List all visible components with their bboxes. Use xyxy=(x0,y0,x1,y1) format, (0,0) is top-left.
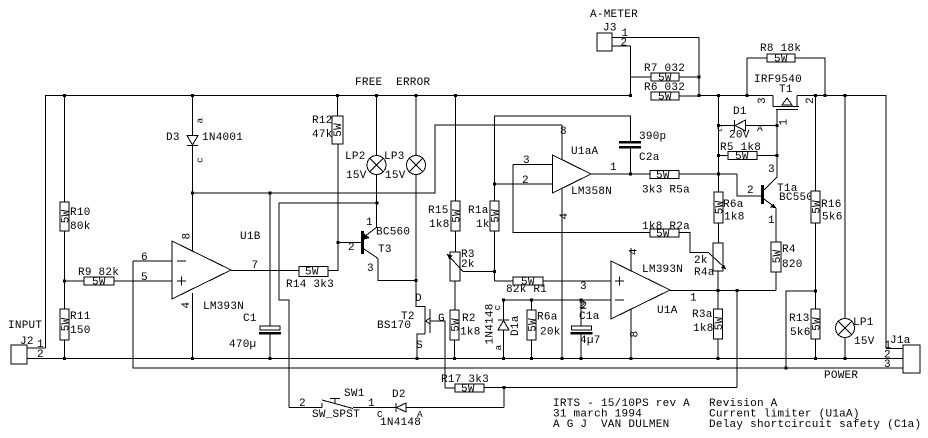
svg-text:5W: 5W xyxy=(305,267,319,279)
svg-text:5: 5 xyxy=(141,272,148,284)
node D1a top junction xyxy=(502,298,505,301)
svg-text:1: 1 xyxy=(768,215,775,227)
node D3 top rail junction xyxy=(191,94,194,97)
svg-text:5W: 5W xyxy=(451,209,463,223)
node R13 bottom rail junction xyxy=(814,357,817,360)
svg-text:J2: J2 xyxy=(20,336,34,348)
node R3 wiper R1a junction xyxy=(493,270,496,273)
svg-text:2: 2 xyxy=(299,398,306,410)
svg-text:G: G xyxy=(438,313,445,325)
svg-text:20V: 20V xyxy=(729,130,750,142)
resistor R12 47k xyxy=(312,96,345,145)
svg-text:20k: 20k xyxy=(540,327,561,339)
wire T1 drain rail xyxy=(797,96,886,349)
node J3 pin2 rail junction xyxy=(629,94,632,97)
svg-text:LM393N: LM393N xyxy=(203,301,244,313)
node R11 bottom rail junction xyxy=(63,357,66,360)
node LP1 bottom rail junction xyxy=(843,357,846,360)
node R10 top rail junction xyxy=(63,94,66,97)
svg-text:a: a xyxy=(493,345,504,351)
svg-text:R11: R11 xyxy=(70,311,91,323)
capacitor C2a 390p xyxy=(619,131,666,174)
svg-text:BC560: BC560 xyxy=(376,227,410,239)
svg-text:5W: 5W xyxy=(656,170,670,182)
svg-text:5k6: 5k6 xyxy=(790,327,811,339)
capacitor C1a 4u7 xyxy=(571,300,601,359)
svg-text:390p: 390p xyxy=(639,131,666,143)
svg-text:5W: 5W xyxy=(461,384,475,396)
svg-text:A G J VAN DULMEN: A G J VAN DULMEN xyxy=(553,419,669,431)
svg-text:R6a: R6a xyxy=(537,312,558,324)
node LP2 rail junction xyxy=(375,94,378,97)
svg-text:R6a: R6a xyxy=(723,199,744,211)
svg-text:5W: 5W xyxy=(333,123,345,137)
wire rail to T1 source xyxy=(699,95,773,97)
capacitor C1 470u xyxy=(229,193,281,359)
svg-text:3: 3 xyxy=(884,359,891,371)
node LP2 line B junction xyxy=(375,201,378,204)
svg-text:T1: T1 xyxy=(779,84,793,96)
svg-text:SW1: SW1 xyxy=(344,388,365,400)
transistor T1 IRF9540 xyxy=(754,74,817,171)
svg-text:R15: R15 xyxy=(428,205,449,217)
wire R5a output to T1a base xyxy=(737,174,761,196)
svg-text:5W: 5W xyxy=(714,316,726,330)
svg-text:D: D xyxy=(415,293,422,305)
svg-text:S: S xyxy=(416,340,423,352)
lamp LP2 15V xyxy=(345,96,386,228)
node D1 cathode junction xyxy=(717,124,720,127)
connector J1a POWER xyxy=(824,335,920,382)
connector J2 INPUT xyxy=(8,320,46,364)
svg-text:1: 1 xyxy=(779,119,791,126)
node U1B pin4 rail junction xyxy=(191,357,194,360)
svg-text:4µ7: 4µ7 xyxy=(580,335,601,347)
node R16 top rail junction xyxy=(814,94,817,97)
node T3 base R12/R14 junction xyxy=(336,241,339,244)
svg-text:2: 2 xyxy=(37,349,44,361)
wire D2 to R17 node xyxy=(503,388,505,408)
svg-text:Delay shortcircuit safety (C1a: Delay shortcircuit safety (C1a) xyxy=(709,419,921,431)
svg-text:R10: R10 xyxy=(70,207,91,219)
op-amp U1B LM393N xyxy=(133,231,299,359)
node C1a top junction xyxy=(579,298,582,301)
svg-text:3: 3 xyxy=(367,263,374,275)
svg-text:BC550: BC550 xyxy=(779,192,813,204)
svg-text:3: 3 xyxy=(757,97,769,104)
svg-text:5k6: 5k6 xyxy=(822,212,843,224)
node output branch junction xyxy=(735,289,738,292)
svg-text:LP2: LP2 xyxy=(345,151,366,163)
svg-text:2: 2 xyxy=(621,38,628,50)
svg-text:1N4148: 1N4148 xyxy=(380,417,421,429)
op-amp U1aA LM358N xyxy=(495,125,651,359)
node C2a output junction xyxy=(629,172,632,175)
svg-text:5W: 5W xyxy=(658,92,672,104)
node R2 rail junction xyxy=(453,357,456,360)
svg-text:5W: 5W xyxy=(92,277,106,289)
potentiometer R3 2k xyxy=(447,249,495,310)
wire top supply rail xyxy=(46,96,632,349)
svg-text:1: 1 xyxy=(368,398,375,410)
resistor R6a 1k8 xyxy=(714,174,745,243)
svg-text:U1A: U1A xyxy=(657,305,678,317)
wire U1aA pin3 to R2a line xyxy=(513,165,650,233)
node R15 rail junction xyxy=(454,94,457,97)
svg-text:80k: 80k xyxy=(70,221,91,233)
svg-text:POWER: POWER xyxy=(824,370,858,382)
svg-text:IRF9540: IRF9540 xyxy=(754,74,802,86)
wire U1A output to R17 line xyxy=(736,291,738,388)
svg-text:D1a: D1a xyxy=(510,315,522,336)
resistor R9 82k xyxy=(65,267,173,289)
wire R16 bottom to rail2 branch xyxy=(786,291,816,368)
svg-text:T3: T3 xyxy=(378,244,392,256)
svg-text:15V: 15V xyxy=(346,170,367,182)
svg-text:SW_SPST: SW_SPST xyxy=(312,409,360,421)
resistor R7 032 xyxy=(631,63,700,85)
svg-text:R12: R12 xyxy=(312,115,333,127)
label title block xyxy=(553,398,921,431)
svg-text:5W: 5W xyxy=(735,151,749,163)
svg-text:R1a: R1a xyxy=(468,205,489,217)
resistor R8 18k xyxy=(747,43,825,96)
svg-text:820: 820 xyxy=(782,259,803,271)
diode D1a 1N4148 xyxy=(485,300,523,359)
node R5 left junction xyxy=(717,154,720,157)
node U1aA pin4 rail junction xyxy=(560,357,563,360)
node R12 rail junction xyxy=(336,94,339,97)
svg-text:1N4001: 1N4001 xyxy=(202,132,243,144)
svg-text:1k8: 1k8 xyxy=(460,327,481,339)
resistor R15 1k8 xyxy=(428,96,463,253)
svg-text:A-METER: A-METER xyxy=(590,9,638,21)
resistor R1a 1k xyxy=(468,184,502,281)
svg-text:R14 3k3: R14 3k3 xyxy=(286,279,334,291)
svg-text:U1aA: U1aA xyxy=(571,146,599,158)
resistor R13 5k6 xyxy=(789,309,823,359)
svg-text:R4a: R4a xyxy=(694,267,715,279)
node R16 branch junction xyxy=(814,289,817,292)
node U1aA pin2 feedback junction xyxy=(493,182,496,185)
diode D3 1N4001 xyxy=(166,96,243,252)
node branch rail2 junction xyxy=(784,366,787,369)
node D2 R17 junction xyxy=(502,386,505,389)
svg-text:3k3 R5a: 3k3 R5a xyxy=(642,185,690,197)
svg-text:3: 3 xyxy=(580,281,587,293)
svg-text:15V: 15V xyxy=(854,336,875,348)
node T3 collector drain junction xyxy=(414,279,417,282)
node LP1 rail junction xyxy=(843,94,846,97)
node R6a bottom rail junction xyxy=(530,357,533,360)
svg-text:LM393N: LM393N xyxy=(642,264,683,276)
svg-text:2k: 2k xyxy=(694,255,708,267)
svg-text:6: 6 xyxy=(141,252,148,264)
resistor R1 82k xyxy=(495,277,612,297)
node R6a top junction xyxy=(530,298,533,301)
svg-text:a: a xyxy=(195,118,206,124)
node R4a bottom output junction xyxy=(716,289,719,292)
resistor R2 1k8 xyxy=(450,310,481,359)
svg-text:1k8: 1k8 xyxy=(429,219,450,231)
svg-text:1: 1 xyxy=(610,162,617,174)
wire C2a feedback line xyxy=(495,116,631,184)
svg-text:1: 1 xyxy=(366,217,373,229)
svg-text:1: 1 xyxy=(690,293,697,305)
svg-text:8: 8 xyxy=(560,126,567,138)
svg-text:C1: C1 xyxy=(243,313,257,325)
resistor R10 80k xyxy=(60,96,91,310)
wire U1A pin2 line xyxy=(504,299,612,301)
transistor T3 BC560 xyxy=(338,217,416,281)
node R7 right junction xyxy=(697,75,700,78)
resistor R16 5k6 xyxy=(811,96,843,310)
svg-text:D3: D3 xyxy=(166,132,180,144)
svg-text:R16: R16 xyxy=(821,199,842,211)
svg-text:2: 2 xyxy=(522,175,529,187)
svg-text:1k8 R2a: 1k8 R2a xyxy=(642,221,690,233)
svg-text:C2a: C2a xyxy=(639,152,660,164)
resistor R6a 20k xyxy=(527,300,561,359)
svg-text:150: 150 xyxy=(70,325,91,337)
node T2 source rail junction xyxy=(415,357,418,360)
node R5a R6a junction xyxy=(717,172,720,175)
wire D1 R5 branch vertical xyxy=(718,96,720,193)
svg-text:1k: 1k xyxy=(476,219,490,231)
potentiometer R4a 2k xyxy=(694,243,726,291)
op-amp U1A LM393N xyxy=(579,248,776,359)
wire bottom rail 1 (0V) xyxy=(27,358,903,360)
svg-text:3: 3 xyxy=(768,164,775,176)
resistor R4 820 xyxy=(771,242,803,291)
resistor R5a 3k3 xyxy=(642,170,737,197)
lamp LP1 15V xyxy=(836,96,875,359)
svg-text:c: c xyxy=(492,305,503,311)
transistor T1a BC550 xyxy=(747,156,813,243)
svg-text:2: 2 xyxy=(348,242,355,254)
node C1 bottom rail junction xyxy=(268,357,271,360)
node R8 right rail junction xyxy=(823,94,826,97)
node R3a bottom rail junction xyxy=(716,357,719,360)
node C1 top line A junction xyxy=(268,191,271,194)
node R8 left rail junction xyxy=(745,94,748,97)
wire node A line (D3 cathode to pin8 feed) xyxy=(193,125,563,193)
connector J3 A-METER xyxy=(590,9,699,96)
svg-text:R2: R2 xyxy=(462,313,476,325)
svg-text:LP1: LP1 xyxy=(853,317,874,329)
svg-text:c: c xyxy=(195,157,206,163)
diode D1 20V xyxy=(717,106,777,142)
svg-text:FREE ERROR: FREE ERROR xyxy=(355,77,431,89)
resistor R17 3k3 xyxy=(441,374,737,396)
diode D2 1N4148 xyxy=(377,389,504,429)
svg-text:1k8: 1k8 xyxy=(693,323,714,335)
resistor R6 032 xyxy=(644,82,699,104)
svg-text:4: 4 xyxy=(629,248,641,255)
svg-text:82k R1: 82k R1 xyxy=(506,284,547,296)
svg-text:A: A xyxy=(757,123,763,134)
resistor R3a 1k8 xyxy=(692,291,726,359)
svg-text:1k8: 1k8 xyxy=(724,212,745,224)
svg-text:BS170: BS170 xyxy=(377,320,411,332)
svg-text:R4: R4 xyxy=(782,244,796,256)
resistor R5 1k8 xyxy=(719,142,778,163)
svg-text:C1a: C1a xyxy=(579,311,600,323)
svg-text:INPUT: INPUT xyxy=(8,320,42,332)
svg-text:R13: R13 xyxy=(789,313,810,325)
wire bottom rail 2 xyxy=(133,261,903,368)
svg-text:LP3: LP3 xyxy=(384,151,405,163)
svg-text:LM358N: LM358N xyxy=(571,186,612,198)
node line A at D3 xyxy=(191,191,194,194)
svg-text:5W: 5W xyxy=(811,317,823,331)
svg-text:47k: 47k xyxy=(312,129,333,141)
svg-text:D1: D1 xyxy=(733,106,747,118)
svg-text:U1B: U1B xyxy=(240,231,261,243)
svg-text:470µ: 470µ xyxy=(229,339,256,351)
svg-text:5W: 5W xyxy=(774,54,788,66)
node R9/R10 junction xyxy=(63,279,66,282)
node D1 anode gate junction xyxy=(775,124,778,127)
svg-text:R3a: R3a xyxy=(692,309,713,321)
svg-text:8: 8 xyxy=(182,233,194,240)
resistor R11 150 xyxy=(60,309,91,359)
resistor R2a 1k8 xyxy=(642,221,709,253)
svg-text:D2: D2 xyxy=(392,389,406,401)
svg-text:4: 4 xyxy=(559,213,571,220)
node R6 right rail junction xyxy=(697,94,700,97)
transistor T2 BS170 xyxy=(377,293,445,388)
svg-text:15V: 15V xyxy=(385,170,406,182)
node R5 right junction xyxy=(775,154,778,157)
node D1a bottom rail junction xyxy=(502,357,505,360)
node C1a bottom rail junction xyxy=(579,357,582,360)
wire line B (SW1 branch) xyxy=(279,203,377,408)
node U1A pin8 rail junction xyxy=(629,357,632,360)
node D1 branch rail junction xyxy=(717,94,720,97)
switch SW1 SW_SPST xyxy=(289,388,396,421)
svg-text:2k: 2k xyxy=(461,259,475,271)
lamp LP3 15V xyxy=(384,96,426,308)
svg-text:3: 3 xyxy=(523,155,530,167)
svg-text:4: 4 xyxy=(181,302,193,309)
resistor R14 3k3 xyxy=(286,144,338,291)
node LP3 rail junction xyxy=(414,94,417,97)
svg-text:2: 2 xyxy=(747,185,754,197)
svg-text:5W: 5W xyxy=(490,209,502,223)
